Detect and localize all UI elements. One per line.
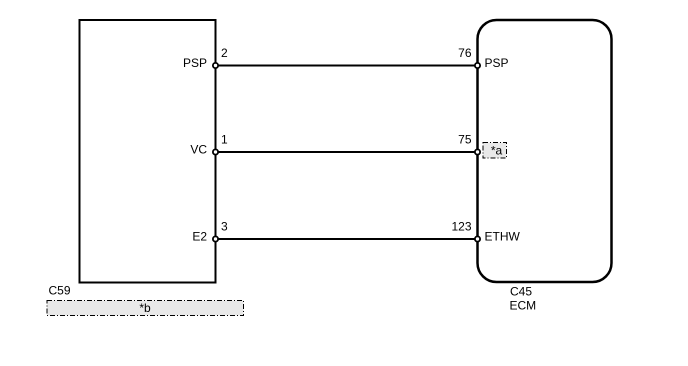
node: ECM pin 75 terminal [475,149,480,154]
svg-text:*b: *b [139,301,151,315]
svg-text:3: 3 [221,220,228,234]
pin number 3 (C59) [221,220,228,234]
svg-text:*a: *a [491,144,503,158]
svg-text:1: 1 [221,133,228,147]
ECM C45 body [478,20,612,282]
node: C59 pin 1 terminal [213,149,218,154]
wire PSP: C59 pin 2 to ECM pin 76 [216,65,478,67]
note box *a at ECM pin 75 [483,143,507,159]
label: C59 signal PSP [183,56,207,70]
svg-text:ETHW: ETHW [485,230,521,244]
node: C59 pin 3 terminal [213,236,218,241]
svg-text:VC: VC [190,143,207,157]
wire E2: C59 pin 3 to ECM pin 123 (ETHW) [216,238,478,240]
pin number 1 (C59) [221,133,228,147]
svg-text:C59: C59 [49,284,71,298]
svg-text:76: 76 [458,46,472,60]
pin number 123 (ECM) [451,220,471,234]
svg-text:75: 75 [458,133,472,147]
node: ECM pin 76 terminal [475,63,480,68]
label: connector designator C45 [510,285,532,299]
svg-text:123: 123 [451,220,471,234]
pin number 76 (ECM) [458,46,472,60]
label: ECM signal PSP [485,56,509,70]
node: ECM pin 123 terminal [475,236,480,241]
pin number 2 (C59) [221,46,228,60]
pin number 75 (ECM) [458,133,472,147]
svg-text:PSP: PSP [183,56,207,70]
svg-text:PSP: PSP [485,56,509,70]
label: ECM signal ETHW [485,230,521,244]
svg-text:E2: E2 [192,230,207,244]
label: C59 signal E2 [192,230,207,244]
label: connector designator C59 [49,284,71,298]
node: C59 pin 2 terminal [213,63,218,68]
connector C59 body [80,20,216,283]
wire VC: C59 pin 1 to ECM pin 75 [216,151,478,153]
svg-text:2: 2 [221,46,228,60]
note box *b below connector C59 [47,301,244,316]
svg-text:ECM: ECM [510,299,537,313]
label: C59 signal VC [190,143,207,157]
label: ECM name [510,299,537,313]
svg-text:C45: C45 [510,285,532,299]
